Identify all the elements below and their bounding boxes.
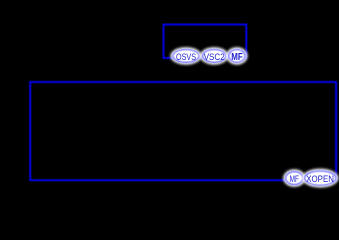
box: upper dialect box (164, 25, 247, 59)
svg-text:XOPEN: XOPEN (306, 174, 334, 184)
oval VSC2 (200, 47, 228, 64)
svg-text:MF: MF (290, 174, 300, 184)
box: lower dialect box (30, 82, 336, 180)
oval XOPEN (302, 169, 338, 188)
svg-text:VSC2: VSC2 (204, 52, 225, 62)
svg-text:OSVS: OSVS (176, 52, 196, 62)
oval MF (283, 169, 305, 186)
oval MF (226, 47, 247, 64)
svg-text:MF: MF (231, 52, 243, 63)
oval OSVS (170, 47, 201, 64)
